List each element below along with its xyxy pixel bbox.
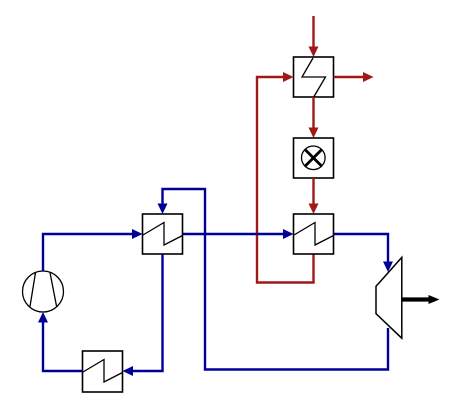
heat exchanger HX3 [294,214,334,254]
wire: blue stream HX4 left to compressor bottom inlet [38,312,83,371]
wire: red stream HX1 bottom to valve V1 [309,97,319,138]
heat exchanger HX1 [294,57,334,97]
valve V1 [294,138,334,178]
wire: red product stream out of HX1 right [334,72,374,82]
wire: blue stream compressor top to HX2 left inlet [43,229,143,271]
work stream arrow out of turbine [402,295,440,304]
wire: blue stream HX2 right to HX3 left inlet [183,229,294,239]
heat exchanger HX4 [83,351,123,392]
heat exchanger HX2 [143,214,183,254]
compressor K1 [23,271,64,312]
wire: red recycle from HX3 bottom up to HX1 left inlet [257,72,314,283]
wire: blue stream HX3 right to turbine T1 inlet [334,234,394,272]
wire: red stream valve V1 to exchanger HX3 top [309,178,319,214]
wire: blue stream HX2 bottom to exchanger HX4 right inlet [123,254,163,376]
wire: red feed stream into heater HX1 top [309,16,319,57]
wire: blue stream turbine outlet back to HX2 top inlet [158,189,389,370]
turbine T1 [376,257,402,338]
